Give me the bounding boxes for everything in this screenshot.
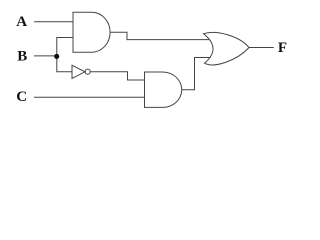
wire B branch up to AND1 bbox=[57, 38, 73, 56]
wire OR output to F bbox=[249, 47, 274, 49]
wire NOT output to AND2 bbox=[90, 72, 144, 80]
svg-text:B: B bbox=[17, 49, 27, 65]
wire B branch down to NOT bbox=[57, 56, 72, 72]
junction dot node B bbox=[54, 54, 59, 59]
and-gate U3 (B' AND C) bbox=[145, 72, 182, 107]
wire AND1 output to OR bbox=[110, 32, 209, 39]
wire input B bbox=[34, 55, 57, 57]
inverter U2 (NOT B) bbox=[72, 65, 85, 78]
and-gate U1 (A AND B) bbox=[73, 12, 110, 52]
or-gate U4 bbox=[204, 32, 250, 64]
wire AND2 output to OR bbox=[182, 58, 211, 90]
svg-text:C: C bbox=[16, 89, 27, 105]
wire input A bbox=[34, 21, 73, 23]
svg-text:A: A bbox=[16, 14, 27, 30]
svg-text:F: F bbox=[278, 40, 287, 56]
inverter bubble bbox=[85, 69, 90, 74]
wire input C bbox=[34, 96, 145, 98]
